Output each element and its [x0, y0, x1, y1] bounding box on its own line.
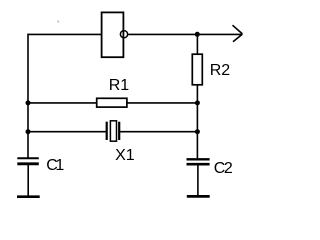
node junction left rail / R1: [26, 100, 31, 105]
wire C1 to ground: [27, 165, 29, 196]
ground below C2: [187, 195, 210, 198]
wire from output node down to R2: [196, 34, 198, 54]
wire from R2 down right rail to C2: [196, 84, 198, 158]
svg-text:X1: X1: [115, 147, 135, 164]
svg-text:R1: R1: [109, 77, 130, 94]
wire R1 row left segment: [28, 102, 97, 104]
svg-text:C2: C2: [214, 160, 233, 177]
node junction left rail / crystal: [26, 129, 31, 134]
wire crystal row right segment: [120, 131, 197, 133]
ground below C1: [17, 195, 40, 198]
svg-text:C1: C1: [46, 157, 64, 174]
wire gate output wire: [128, 33, 242, 35]
wire R1 row right segment: [127, 102, 197, 104]
resistor R1: [97, 98, 127, 107]
svg-text:R2: R2: [210, 62, 231, 79]
inverter gate U1 body: [102, 12, 124, 57]
wire input wire to gate: [28, 33, 102, 35]
inverter gate U1 inversion bubble: [120, 31, 127, 38]
node junction right rail / crystal: [195, 129, 200, 134]
node junction right rail / R1: [195, 100, 200, 105]
crystal X1: [107, 121, 120, 141]
capacitor C2: [187, 159, 210, 164]
capacitor C1: [17, 158, 39, 164]
resistor R2: [192, 54, 202, 85]
wire crystal row left segment: [28, 131, 106, 133]
wire C2 to ground: [197, 165, 199, 196]
output arrow: [233, 25, 243, 42]
node junction at gate output / R2: [195, 32, 200, 37]
wire left vertical rail: [27, 34, 29, 158]
